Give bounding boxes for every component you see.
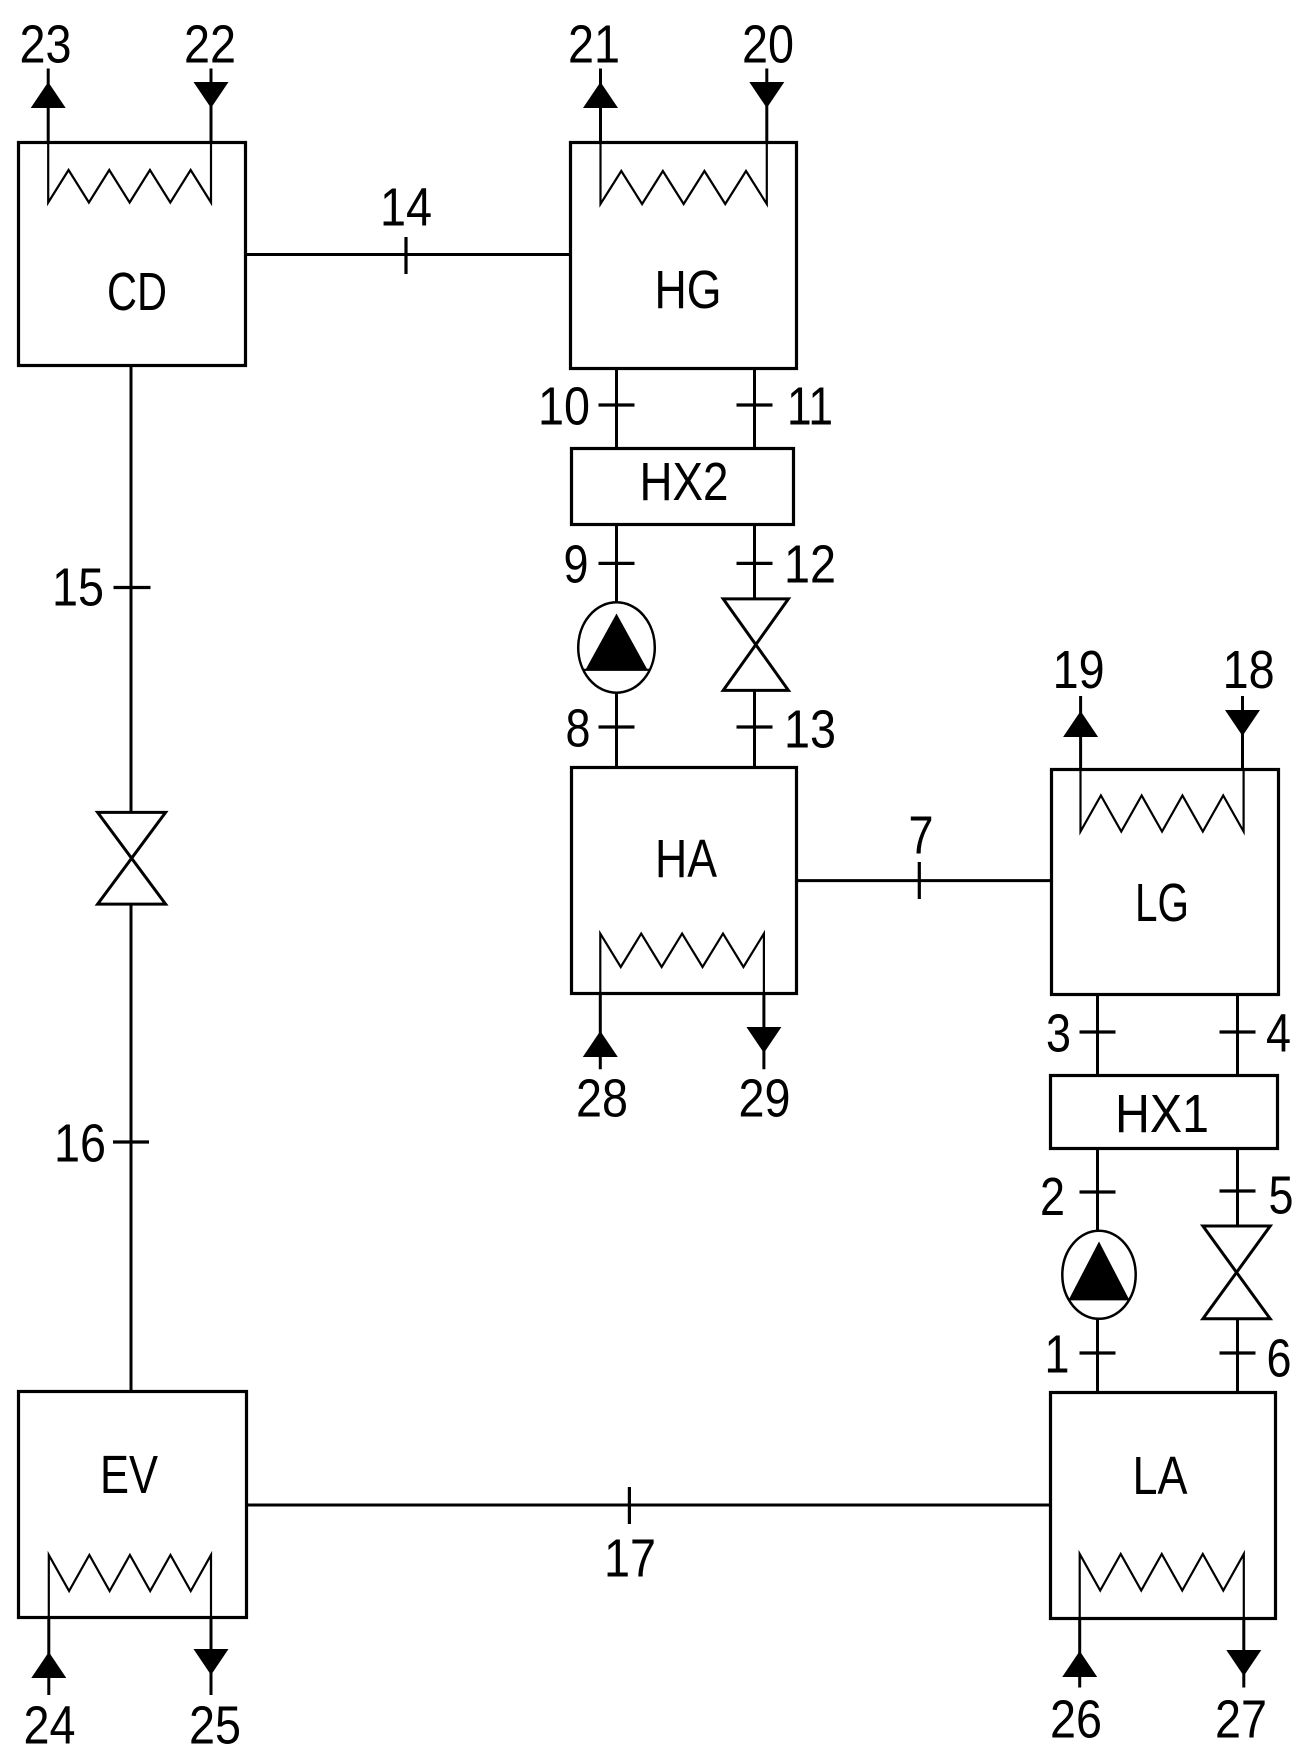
- label 2: [1040, 1167, 1065, 1227]
- label 29: [739, 1069, 791, 1129]
- stream 26 arrow into LA: [1062, 1619, 1097, 1688]
- label 18: [1223, 640, 1275, 700]
- heat exchanger HX1 box: [1051, 1076, 1278, 1149]
- svg-text:14: 14: [380, 178, 432, 238]
- svg-text:28: 28: [576, 1069, 628, 1129]
- label 10: [538, 377, 590, 437]
- svg-text:LG: LG: [1135, 873, 1189, 933]
- svg-text:12: 12: [784, 535, 836, 595]
- svg-text:EV: EV: [100, 1445, 158, 1505]
- label LG: [1135, 873, 1189, 933]
- coil in HA: [600, 934, 764, 994]
- svg-text:25: 25: [189, 1696, 241, 1756]
- label 13: [784, 700, 836, 760]
- label 7: [909, 806, 934, 866]
- wire valve to HA: [753, 690, 756, 767]
- wire 17: EV to LA: [247, 1504, 1051, 1507]
- svg-text:13: 13: [784, 700, 836, 760]
- label HX2: [640, 452, 729, 512]
- svg-text:10: 10: [538, 377, 590, 437]
- label 27: [1215, 1690, 1267, 1750]
- stream 19 arrow out of LG: [1063, 696, 1098, 770]
- wire HX2 to valve right: [753, 525, 756, 600]
- label 1: [1045, 1325, 1070, 1385]
- svg-text:19: 19: [1053, 640, 1105, 700]
- tick state 7: [918, 862, 921, 899]
- absorber LA box: [1051, 1393, 1276, 1619]
- coil in LA: [1080, 1554, 1244, 1619]
- coil in EV: [49, 1555, 211, 1618]
- stream 23 arrow out of CD: [31, 69, 66, 143]
- svg-text:HX1: HX1: [1115, 1084, 1209, 1144]
- svg-text:4: 4: [1266, 1004, 1291, 1064]
- tick state 10: [599, 403, 635, 406]
- svg-text:HG: HG: [655, 260, 722, 320]
- label 25: [189, 1696, 241, 1756]
- wire HX1 to valve right: [1236, 1149, 1239, 1227]
- svg-text:HX2: HX2: [640, 452, 729, 512]
- svg-text:17: 17: [604, 1529, 656, 1589]
- svg-text:11: 11: [787, 377, 833, 437]
- tick state 6: [1220, 1351, 1256, 1354]
- label 6: [1267, 1329, 1292, 1389]
- label 15: [52, 558, 104, 618]
- wire HX1 to pump left: [1096, 1149, 1099, 1232]
- tick state 2: [1080, 1190, 1116, 1193]
- svg-text:7: 7: [909, 806, 934, 866]
- label EV: [100, 1445, 158, 1505]
- svg-text:HA: HA: [655, 829, 717, 889]
- svg-text:16: 16: [54, 1114, 106, 1174]
- wire valve to EV: [130, 904, 133, 1391]
- wire valve to LA: [1236, 1319, 1239, 1393]
- expansion valve on CD-EV line: [98, 812, 166, 904]
- svg-text:9: 9: [564, 535, 589, 595]
- svg-text:27: 27: [1215, 1690, 1267, 1750]
- condenser CD box: [19, 143, 246, 366]
- throttle valve (12-13): [723, 599, 788, 691]
- tick state 15: [114, 586, 151, 589]
- label 8: [566, 699, 591, 759]
- wire pump to LA: [1096, 1319, 1099, 1393]
- label HG: [655, 260, 722, 320]
- label 21: [568, 15, 620, 75]
- evaporator EV box: [19, 1392, 247, 1618]
- label 28: [576, 1069, 628, 1129]
- label 19: [1053, 640, 1105, 700]
- svg-text:LA: LA: [1133, 1446, 1188, 1506]
- label 20: [742, 15, 794, 75]
- svg-text:5: 5: [1269, 1166, 1294, 1226]
- stream 28 arrow into HA: [583, 994, 618, 1070]
- svg-text:26: 26: [1050, 1690, 1102, 1750]
- svg-text:20: 20: [742, 15, 794, 75]
- coil in LG: [1081, 769, 1244, 832]
- wire HG to HX2 right: [753, 369, 756, 449]
- label LA: [1133, 1446, 1188, 1506]
- tick state 9: [599, 562, 635, 565]
- wire CD to valve (left drop): [130, 366, 133, 813]
- svg-text:18: 18: [1223, 640, 1275, 700]
- wire 14: CD to HG: [246, 253, 571, 256]
- svg-text:23: 23: [20, 15, 72, 75]
- tick state 12: [737, 562, 773, 565]
- label 9: [564, 535, 589, 595]
- absorber HA box: [572, 768, 797, 994]
- label HA: [655, 829, 717, 889]
- tick state 11: [737, 403, 773, 406]
- label 5: [1269, 1166, 1294, 1226]
- svg-text:6: 6: [1267, 1329, 1292, 1389]
- label 16: [54, 1114, 106, 1174]
- wire HG to HX2 left: [615, 369, 618, 449]
- wire LG to HX1 right: [1236, 995, 1239, 1076]
- svg-text:22: 22: [184, 15, 236, 75]
- svg-text:8: 8: [566, 699, 591, 759]
- svg-text:15: 15: [52, 558, 104, 618]
- pump P2 (solution pump, circle with solid triangle): [578, 602, 655, 692]
- tick state 8: [599, 725, 635, 728]
- wire 7: HA to LG: [797, 879, 1052, 882]
- label 26: [1050, 1690, 1102, 1750]
- wire HX2 to pump left: [615, 525, 618, 603]
- tick state 4: [1220, 1030, 1256, 1033]
- heat exchanger HX2 box: [572, 449, 794, 525]
- stream 25 arrow out of EV: [194, 1618, 229, 1696]
- stream 22 arrow into CD: [194, 69, 229, 143]
- svg-text:21: 21: [568, 15, 620, 75]
- label 24: [24, 1696, 76, 1756]
- tick state 13: [737, 725, 773, 728]
- label CD: [107, 262, 167, 322]
- tick state 14: [404, 237, 407, 274]
- generator HG box: [571, 143, 797, 369]
- label 22: [184, 15, 236, 75]
- svg-text:CD: CD: [107, 262, 167, 322]
- wire pump to HA: [615, 693, 618, 768]
- stream 27 arrow out of LA: [1226, 1619, 1261, 1688]
- stream 21 arrow out of HG: [583, 69, 618, 143]
- label HX1: [1115, 1084, 1209, 1144]
- throttle valve (5-6): [1203, 1226, 1270, 1319]
- stream 20 arrow into HG: [749, 69, 784, 143]
- generator LG box: [1052, 770, 1279, 995]
- tick state 5: [1220, 1189, 1256, 1192]
- label 4: [1266, 1004, 1291, 1064]
- stream 18 arrow into LG: [1225, 696, 1260, 770]
- svg-text:24: 24: [24, 1696, 76, 1756]
- wire LG to HX1 left: [1096, 995, 1099, 1076]
- tick state 16: [113, 1140, 149, 1143]
- label 14: [380, 178, 432, 238]
- label 12: [784, 535, 836, 595]
- label 17: [604, 1529, 656, 1589]
- pump P1 (solution pump, circle with solid triangle): [1062, 1231, 1135, 1319]
- coil in CD: [48, 142, 211, 203]
- stream 24 arrow into EV: [31, 1618, 66, 1696]
- tick state 3: [1080, 1030, 1116, 1033]
- stream 29 arrow out of HA: [746, 994, 781, 1070]
- tick state 17: [628, 1487, 631, 1524]
- svg-text:2: 2: [1040, 1167, 1065, 1227]
- tick state 1: [1080, 1351, 1116, 1354]
- label 11: [787, 377, 833, 437]
- label 3: [1046, 1004, 1071, 1064]
- coil in HG: [601, 142, 767, 204]
- svg-text:3: 3: [1046, 1004, 1071, 1064]
- label 23: [20, 15, 72, 75]
- svg-text:29: 29: [739, 1069, 791, 1129]
- svg-text:1: 1: [1045, 1325, 1070, 1385]
